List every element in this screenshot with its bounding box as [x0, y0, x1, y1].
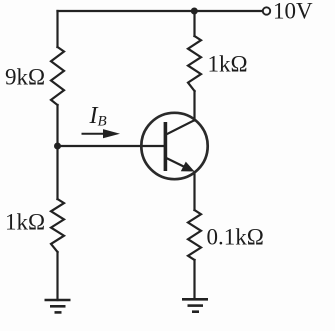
transistor Q1 collector stroke	[166, 120, 196, 135]
arrow I_B	[82, 129, 121, 138]
wire left vertical middle	[56, 105, 58, 199]
svg-text:10V: 10V	[273, 0, 313, 24]
svg-text:IB: IB	[89, 103, 107, 130]
ground symbol left	[45, 300, 71, 312]
wire collector lead	[193, 91, 195, 121]
svg-text:1kΩ: 1kΩ	[5, 210, 45, 235]
terminal 10V open circle	[263, 7, 270, 14]
resistor 1k right zigzag	[188, 36, 201, 91]
transistor Q1 emitter stroke with arrowhead	[165, 157, 188, 168]
transistor Q1 base bar	[164, 122, 168, 171]
svg-text:1kΩ: 1kΩ	[208, 52, 248, 77]
wire left vertical lower	[56, 252, 58, 300]
wire left vertical upper	[56, 11, 58, 47]
ground symbol right	[182, 299, 208, 311]
wire right vertical upper	[193, 11, 195, 36]
wire right vertical lower	[193, 260, 195, 299]
node junction dot top	[191, 8, 198, 15]
resistor 9k zigzag	[51, 47, 64, 105]
wire base horizontal	[58, 145, 165, 147]
resistor 1k left zigzag	[51, 199, 64, 252]
resistor 0.1k zigzag	[188, 210, 201, 260]
node junction dot base	[54, 143, 61, 150]
wire emitter lead	[193, 172, 195, 210]
svg-text:0.1kΩ: 0.1kΩ	[207, 225, 264, 250]
wire top rail	[58, 10, 263, 12]
transistor Q1 circle	[141, 113, 207, 179]
svg-text:9kΩ: 9kΩ	[5, 65, 45, 90]
